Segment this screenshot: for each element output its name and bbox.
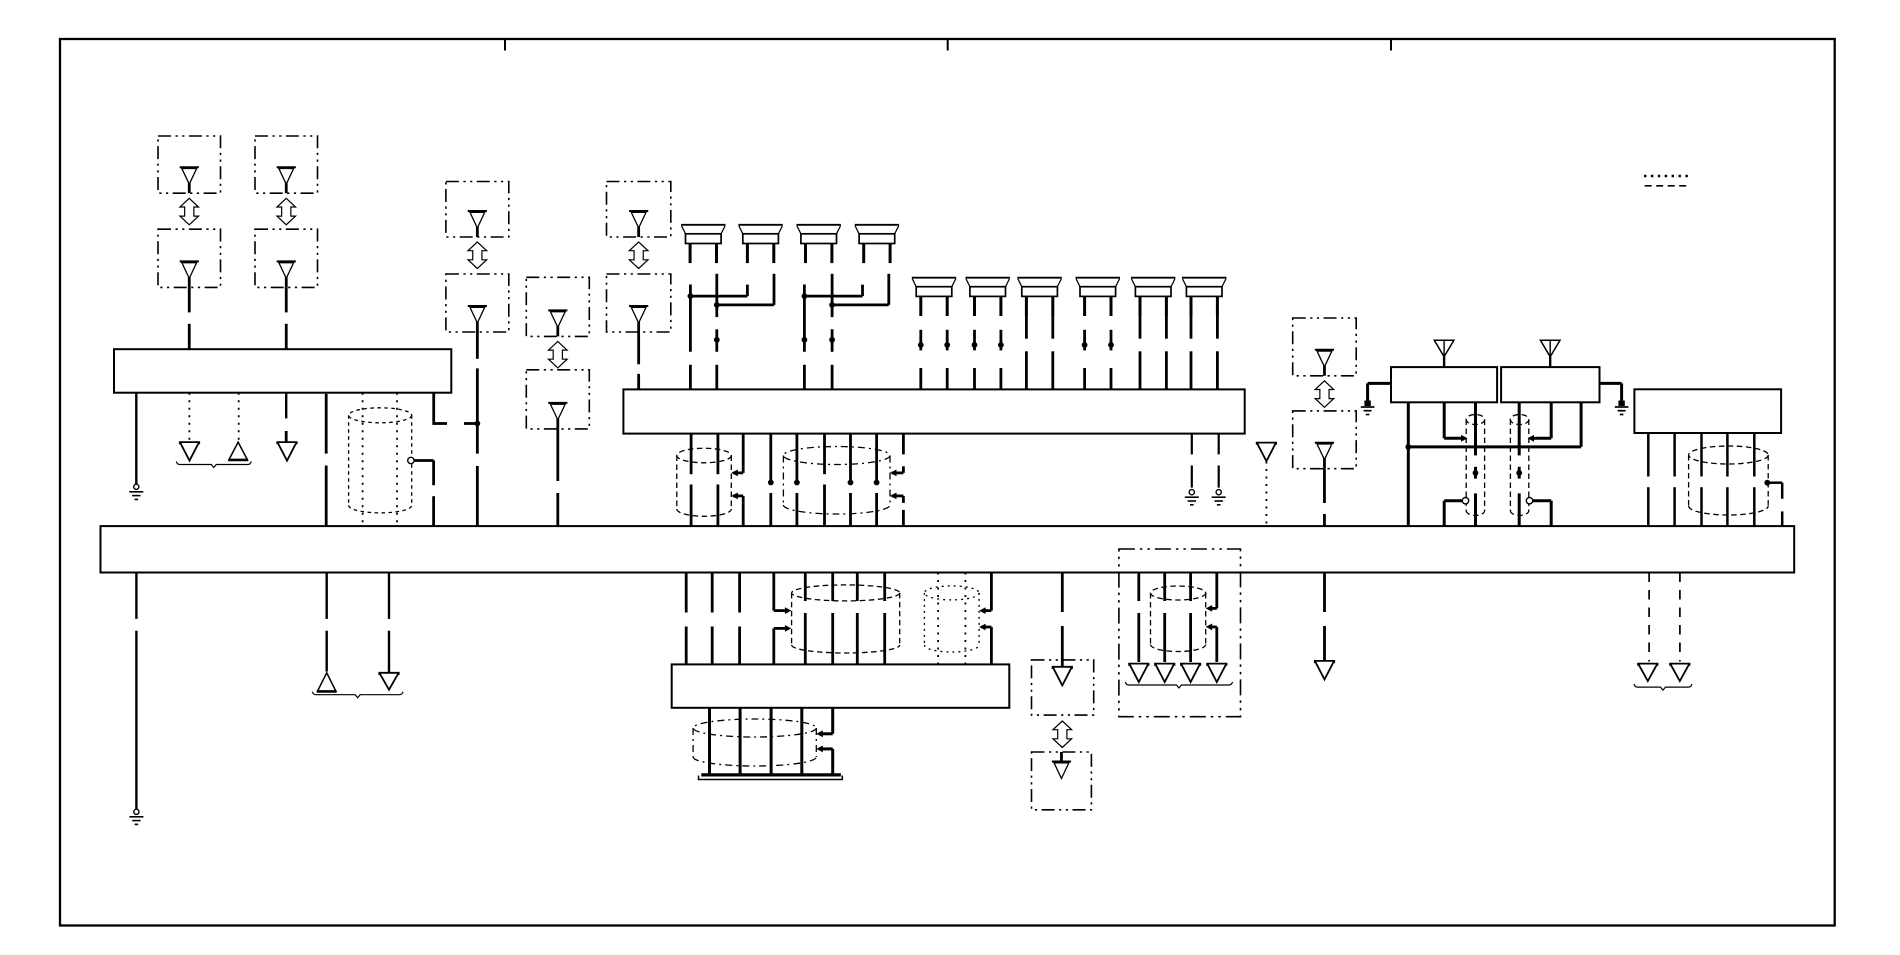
terminal brace 2 <box>312 692 403 698</box>
ground G1 <box>134 484 139 489</box>
tie wire plus pair1 <box>717 303 774 306</box>
shield tap M3 bot <box>774 627 786 630</box>
wire A2 to audio unit <box>188 287 191 312</box>
dashed wire T2 <box>1679 573 1681 662</box>
shield cylinder R1 <box>1466 415 1484 425</box>
terminal brace H <box>1125 682 1232 688</box>
shield port circle R1 <box>1462 498 1468 504</box>
tuner1 shield top tap <box>1443 402 1446 438</box>
tap arrow M5 bot <box>816 746 823 753</box>
option wire <box>1163 573 1166 602</box>
shield port circle R2 <box>1526 498 1532 504</box>
connector box A1 <box>158 136 221 193</box>
receiver output wire <box>1726 433 1729 477</box>
amplifier block <box>623 389 1244 433</box>
link arrow F <box>1315 381 1334 408</box>
legend dashed line <box>1645 185 1690 187</box>
shield tap M2 top <box>892 471 904 474</box>
link arrow G <box>1053 721 1072 748</box>
tie wire plus pair2 <box>832 303 889 306</box>
ground G4 <box>1364 401 1370 407</box>
tuner2 coax wire <box>1518 402 1521 455</box>
antenna ANT2 stem <box>1549 357 1551 367</box>
wire SP1 right leg down <box>715 274 718 317</box>
connector box B2 <box>255 229 318 287</box>
speaker SP4 <box>855 224 899 226</box>
tap arrow R2 <box>1528 435 1535 442</box>
wire unit to ground <box>135 393 137 485</box>
shielded cable big cylinder <box>349 408 412 423</box>
coax connector dot R2 <box>1516 470 1522 476</box>
option wire <box>1137 573 1140 602</box>
wire SP8 leg R <box>1110 315 1112 317</box>
shield tap M5 top <box>822 732 833 735</box>
chassis bar thin <box>699 776 843 780</box>
terminal arrow antenna <box>1257 443 1276 462</box>
audio unit block <box>114 349 451 393</box>
tie wire minus pair1 <box>690 295 747 298</box>
shield tap arrow M2 top <box>890 470 897 477</box>
connector box E1 <box>607 182 671 238</box>
ground G6 <box>134 809 139 814</box>
tap arrow M3 top <box>785 607 792 614</box>
link arrow B <box>277 198 296 225</box>
wire SP7 leg L <box>1025 316 1028 339</box>
amp output wire <box>717 434 720 475</box>
chassis bar thick <box>701 773 841 776</box>
amp output wire <box>849 434 852 483</box>
terminal arrow in G1 <box>1053 667 1072 686</box>
wire SP10 leg R <box>1216 316 1219 339</box>
wire SP9 leg R <box>1165 316 1168 339</box>
shield tap arrow M1 top <box>731 470 738 477</box>
connector box C2 <box>446 274 509 332</box>
shield cylinder M4 dotted <box>924 586 979 600</box>
amp output wire <box>823 434 826 475</box>
junction SP1-SP2 plus <box>714 302 720 308</box>
receiver output wire <box>1753 433 1756 477</box>
connector box D2 <box>526 370 589 429</box>
shield tap M1 bot <box>733 494 743 497</box>
terminal arrow 1 <box>180 442 199 461</box>
ground wire tuner1 <box>1368 382 1391 385</box>
drain wire M4 <box>990 573 993 611</box>
receiver output wire <box>1647 433 1650 477</box>
dashed wire T1 <box>1648 573 1650 662</box>
terminal arrow single <box>1315 661 1334 680</box>
shield port dot R3 <box>1764 480 1770 486</box>
wire SP3 right leg down <box>831 274 834 317</box>
wire dotted to terminal 1 <box>188 393 190 441</box>
wire SP5 leg L <box>920 315 922 317</box>
wire unit pin5 to bus <box>325 394 328 454</box>
shield tap arrow M1 bot <box>731 493 738 500</box>
bus to body-unit wire <box>738 573 741 613</box>
body-unit to chassis wire <box>739 708 742 775</box>
shield tap arrow M2 bot <box>890 493 897 500</box>
speaker SP1 <box>681 224 725 226</box>
ground G3 <box>1216 490 1221 495</box>
tuner2 shield top tap <box>1550 402 1553 438</box>
shield cylinder M3 <box>792 585 900 601</box>
tie wire minus pair2 <box>804 295 862 298</box>
tap arrow G bot <box>1206 624 1213 631</box>
speaker SP8 <box>1076 277 1120 279</box>
wire SP6 leg L <box>974 315 976 317</box>
shield cylinder M2 <box>783 447 890 465</box>
wire E2 to amplifier <box>637 332 640 364</box>
wire B2 to audio unit <box>285 287 288 312</box>
inline connector dot b <box>802 337 808 343</box>
shield tap M2 bot <box>892 494 904 497</box>
option terminal arrow <box>1155 664 1174 683</box>
wire SP8 leg L <box>1084 315 1086 317</box>
junction SP1-SP2 minus <box>688 293 694 299</box>
shield cylinder M5 <box>693 719 816 737</box>
speaker SP10 <box>1182 277 1226 279</box>
bus to body-unit wire <box>711 573 714 613</box>
option unit box H <box>1119 549 1241 717</box>
wire F2 to main bus <box>1323 469 1326 503</box>
shield cylinder R3 <box>1689 446 1769 464</box>
terminal arrow T1 <box>1638 664 1657 681</box>
bus wire to terminal down <box>388 573 390 619</box>
inline connector SP8L <box>1082 342 1088 348</box>
body-unit to chassis wire <box>708 708 711 775</box>
bus dotted wire 2 <box>964 573 966 665</box>
wire SP9 leg L <box>1139 316 1142 339</box>
bus to body-unit wire <box>883 573 886 602</box>
speaker SP5 <box>912 277 956 279</box>
speaker SP2 <box>738 224 782 226</box>
bus wire to terminal up <box>326 573 328 619</box>
shield tap M5 bot <box>822 747 833 750</box>
shield drain M2 wire <box>902 434 905 455</box>
connector box G2 <box>1032 752 1092 810</box>
bus ground wire <box>135 573 137 619</box>
speaker SP9 <box>1131 277 1175 279</box>
connector box F2 <box>1293 411 1357 469</box>
tuner1 wire left <box>1407 402 1410 526</box>
wire C2 to junction bus <box>476 332 479 359</box>
amp ground wire 2 <box>1218 434 1220 455</box>
connector box C1 <box>446 182 509 238</box>
speaker SP3 <box>797 224 841 226</box>
drain wire M3 <box>772 573 775 611</box>
shield tap M4 top <box>985 609 992 612</box>
tuner1 shield bot tap <box>1443 501 1446 526</box>
tap arrow G top <box>1206 605 1213 612</box>
link arrow A <box>180 198 199 225</box>
wire unit pin4 <box>285 393 287 419</box>
tap arrow R1 <box>1461 435 1468 442</box>
wire SP6 leg R <box>1000 315 1002 317</box>
inline connector dot <box>768 480 774 486</box>
link arrow E <box>629 242 648 269</box>
body-unit to chassis wire <box>770 708 773 775</box>
bus to body-unit wire <box>685 573 688 613</box>
option terminal arrow <box>1129 664 1148 683</box>
terminal brace 1 <box>176 462 251 468</box>
inline connector dot <box>848 480 854 486</box>
terminal arrow T2 <box>1670 664 1689 681</box>
option drain wire <box>1215 573 1218 609</box>
shield tap M3 top <box>774 609 786 612</box>
shield cylinder R2 <box>1510 415 1528 425</box>
junction tuner bus <box>1405 444 1411 450</box>
wire SP7 leg R <box>1051 316 1054 339</box>
shield tap G bot <box>1211 626 1217 629</box>
connector box D1 <box>526 277 589 336</box>
speaker SP7 <box>1017 277 1061 279</box>
wire bus to terminal <box>1323 573 1326 613</box>
body-unit to chassis wire <box>800 708 803 775</box>
ground wire tuner2 <box>1600 382 1622 385</box>
main wiring-harness bus <box>101 526 1795 572</box>
inline connector dot <box>794 480 800 486</box>
tap arrow M4 top <box>979 607 986 614</box>
inline connector dot a <box>714 337 720 343</box>
wire dotted shielded 2 <box>396 393 398 526</box>
receiver output wire <box>1673 433 1676 477</box>
tuner shield link bus <box>1408 445 1581 448</box>
wire dotted antenna to bus <box>1265 462 1267 527</box>
body unit block <box>672 664 1010 707</box>
inline connector SP8R <box>1108 342 1114 348</box>
antenna ANT1 <box>1434 340 1454 357</box>
terminal brace T <box>1634 684 1692 690</box>
connector box F1 <box>1293 318 1357 376</box>
bus to body-unit wire <box>856 573 859 602</box>
amp output wire <box>690 434 693 475</box>
shield cylinder G <box>1151 586 1206 600</box>
ground G2 <box>1189 490 1194 495</box>
tap arrow M4 bot <box>979 624 986 631</box>
inline connector SP6R <box>998 342 1004 348</box>
antenna ANT1 stem <box>1443 357 1445 367</box>
shield drain M1 wire <box>742 434 745 467</box>
receiver output wire <box>1700 433 1703 477</box>
wire dotted to terminal 2 <box>238 393 240 441</box>
bus to body-unit wire <box>831 573 834 602</box>
inline connector dot <box>874 480 880 486</box>
connector box A2 <box>158 229 221 287</box>
inline connector dot c <box>829 337 835 343</box>
tap arrow M3 bot <box>785 625 792 632</box>
shield port circle <box>408 457 414 463</box>
tuner2 wire right <box>1580 402 1583 447</box>
shield tap M1 top <box>733 471 743 474</box>
option terminal arrow <box>1181 664 1200 683</box>
wire bus to G1 <box>1061 573 1064 613</box>
amp output wire <box>875 434 878 483</box>
terminal arrow down 4 <box>379 673 398 690</box>
tap arrow M5 top <box>816 730 823 737</box>
border tick 1 <box>504 39 506 51</box>
wire dotted shielded 1 <box>362 393 364 526</box>
wire D2 to main bus <box>556 429 559 481</box>
connector box E2 <box>607 274 671 332</box>
legend dotted line <box>1644 175 1690 177</box>
option terminal arrow <box>1207 664 1226 683</box>
antenna ANT2 <box>1540 340 1560 357</box>
tuner2 shield bot tap <box>1550 501 1553 526</box>
connector box G1 <box>1032 660 1094 715</box>
receiver block <box>1634 389 1781 433</box>
wire unit pin6 L-shape <box>432 393 435 423</box>
bus dotted wire 1 <box>937 573 939 665</box>
terminal arrow 3 <box>277 442 296 461</box>
junction SP3-SP4 plus <box>829 302 835 308</box>
wire SP3 left leg down <box>803 285 806 352</box>
bus to body-unit wire <box>804 573 807 602</box>
border tick 3 <box>1390 39 1392 51</box>
inline connector SP5R <box>944 342 950 348</box>
inline connector SP6L <box>972 342 978 348</box>
link arrow C <box>468 242 487 269</box>
amp output wire <box>796 434 799 483</box>
tuner1 coax wire <box>1474 402 1477 455</box>
tuner block 2 <box>1501 367 1599 402</box>
wire SP10 leg L <box>1190 316 1193 339</box>
terminal arrow up 2 <box>317 673 336 692</box>
amp ground wire 1 <box>1191 434 1193 455</box>
junction SP3-SP4 minus <box>802 293 808 299</box>
shield cylinder M1 <box>677 448 732 463</box>
speaker SP6 <box>966 277 1010 279</box>
border tick 2 <box>947 39 949 51</box>
wire SP5 leg R <box>946 315 948 317</box>
terminal arrow 2 up <box>229 442 248 460</box>
ground G5 <box>1618 401 1624 407</box>
shield drain R3 <box>1767 481 1782 484</box>
amp output wire <box>769 434 772 483</box>
junction node C <box>474 421 480 427</box>
link arrow D <box>549 341 568 368</box>
tuner block 1 <box>1391 367 1497 402</box>
option wire <box>1189 573 1192 602</box>
connector box B1 <box>255 136 318 193</box>
inline connector SP5L <box>918 342 924 348</box>
shield tap M4 bot <box>985 626 992 629</box>
wire SP1 left leg down <box>689 285 692 352</box>
shield tap G top <box>1211 607 1217 610</box>
coax connector dot R1 <box>1473 470 1479 476</box>
drain wire M5 <box>831 708 834 734</box>
shield drain wire <box>414 459 433 462</box>
